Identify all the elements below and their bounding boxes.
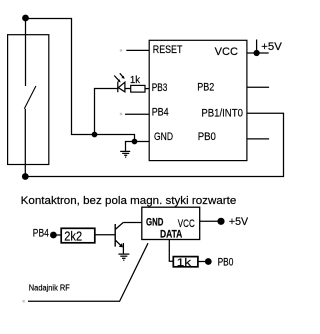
svg-text:PB0: PB0 <box>218 257 234 269</box>
artifact mark left of PB4 stub <box>120 113 122 115</box>
svg-text:GND: GND <box>154 131 173 143</box>
wire switch bottom to node C <box>24 109 26 177</box>
node F +5V bottom dot <box>217 218 224 225</box>
resistor R1 1k body <box>131 85 145 92</box>
svg-text:RESET: RESET <box>153 44 183 56</box>
op IC U1 body <box>149 40 247 160</box>
wire module VCC pin to +5V <box>200 220 221 222</box>
wire R3 to PB0 tag <box>198 261 208 263</box>
callout line for Nadajnik RF <box>28 243 148 301</box>
wire node A to IC GND pin <box>26 19 150 142</box>
svg-text:2k2: 2k2 <box>64 229 82 244</box>
wire node C to PB1/INT0 pin <box>25 113 283 176</box>
wire R1 to PB3 pin <box>145 88 149 90</box>
node E PB4 tag dot <box>50 232 57 239</box>
switch S1 blade (open contact) <box>24 86 36 109</box>
svg-text:PB0: PB0 <box>198 131 216 143</box>
svg-text:PB4: PB4 <box>152 107 169 119</box>
wire PB2 pin stub <box>247 86 269 88</box>
transistor Q1 collector <box>115 223 123 230</box>
svg-text:Nadajnik RF: Nadajnik RF <box>29 283 70 292</box>
svg-text:DATA: DATA <box>160 229 182 241</box>
svg-text:+5V: +5V <box>261 41 282 53</box>
wire VCC pin to +5V <box>247 52 257 54</box>
svg-text:PB4: PB4 <box>33 228 49 240</box>
power +5V top symbol <box>254 40 269 57</box>
ground GND2 <box>118 254 129 260</box>
kontaktron body (reed switch enclosure) <box>8 35 49 165</box>
node D LED branch tap <box>92 132 98 138</box>
svg-text:PB1/INT0: PB1/INT0 <box>201 108 243 120</box>
wire LED to resistor R1 <box>125 88 131 90</box>
transistor Q1 emitter with arrow <box>115 240 123 247</box>
wire node A down to switch contact <box>25 18 27 86</box>
node A kontaktron top junction <box>22 15 29 22</box>
node B GND net junction <box>132 139 138 145</box>
wire PB0 pin stub <box>247 138 269 140</box>
wire PB4 pin stub <box>125 113 149 115</box>
wire node B to ground symbol <box>126 142 135 152</box>
svg-text:PB3: PB3 <box>152 82 168 94</box>
wire RESET pin stub <box>126 49 149 51</box>
wire Q1 collector to module GND pin <box>123 222 142 224</box>
svg-text:+5V: +5V <box>229 216 249 228</box>
svg-text:PB2: PB2 <box>197 82 214 94</box>
transistor Q1 base bar <box>114 224 116 247</box>
ground GND1 <box>120 151 130 157</box>
node C <box>22 173 29 180</box>
artifact mark left of callout underline <box>22 300 24 302</box>
svg-text:VCC: VCC <box>215 46 238 58</box>
resistor R3 1k body <box>173 257 198 267</box>
wire PB4 net tag to R2 <box>53 234 61 236</box>
wire R2 to Q1 base <box>95 234 115 236</box>
svg-text:1k: 1k <box>177 257 192 269</box>
wire module DATA pin down <box>169 240 173 262</box>
LED arrow 2 <box>120 73 125 79</box>
artifact mark left of RESET stub <box>120 49 122 51</box>
wire node D up to LED cathode <box>95 89 118 135</box>
svg-text:1k: 1k <box>130 75 141 86</box>
node G PB0 tag dot <box>205 258 212 265</box>
LED D1 photodiode <box>118 82 125 92</box>
wire Q1 emitter to ground <box>122 243 124 254</box>
LED arrow 1 <box>114 76 120 83</box>
RF module U2 body <box>142 207 200 239</box>
svg-text:Kontaktron, bez pola magn. sty: Kontaktron, bez pola magn. styki rozwart… <box>21 195 237 207</box>
resistor R2 2k2 body <box>61 228 95 243</box>
svg-text:GND: GND <box>146 217 163 229</box>
